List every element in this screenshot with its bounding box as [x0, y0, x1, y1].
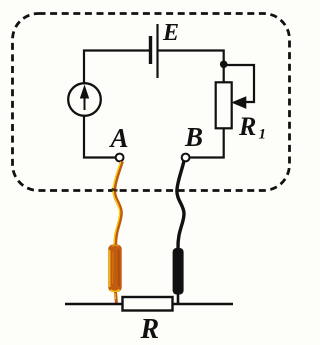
dashed enclosure box: [13, 14, 290, 191]
svg-text:B: B: [184, 122, 203, 152]
galvanometer / current source U1: [68, 83, 101, 116]
wire: wiper feed from node: [224, 65, 254, 102]
resistor R1: [216, 82, 232, 128]
orange probe body: [108, 245, 121, 293]
node junction dot: [220, 61, 228, 69]
black probe body: [173, 248, 184, 295]
wire: top-left vertical + top horizontal to battery: [84, 51, 149, 85]
orange test lead wire from A: [114, 162, 122, 247]
terminal B open circle: [182, 154, 190, 162]
black probe tip: [177, 294, 180, 304]
wire: R1 bottom to terminal B: [190, 128, 224, 157]
battery E long plate: [156, 24, 158, 78]
orange probe tip: [116, 292, 117, 304]
svg-text:1: 1: [259, 127, 267, 143]
terminal A open circle: [116, 154, 124, 162]
black test lead wire from B: [177, 162, 184, 250]
arrow inside galvanometer: [84, 92, 86, 110]
wiper arrowhead: [231, 96, 246, 109]
resistor R lead line: [65, 303, 233, 305]
battery E short plate: [149, 36, 152, 64]
wire: battery to top-right corner and down to R1: [159, 51, 224, 84]
svg-text:R: R: [238, 112, 256, 141]
svg-text:A: A: [109, 123, 129, 153]
svg-text:R: R: [140, 314, 160, 345]
resistor R body: [123, 297, 173, 311]
yellow highlight on orange lead: [113, 162, 121, 245]
dark mark where lead crosses dashed border: [112, 189, 118, 190]
svg-text:E: E: [162, 20, 179, 46]
wire: galvanometer bottom to terminal A: [84, 116, 115, 158]
